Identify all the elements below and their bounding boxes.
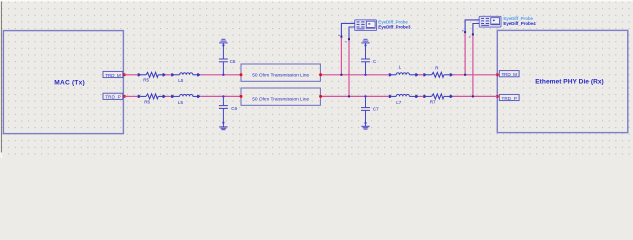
node probe U1 pin2 / bottom wire xyxy=(348,95,350,97)
wire probe U2 pin1 to top row xyxy=(465,20,479,75)
capacitor C7 xyxy=(361,96,370,126)
wire TRD_M net (top row) xyxy=(124,74,497,76)
svg-text:C7: C7 xyxy=(373,107,379,112)
capacitor C6 xyxy=(219,96,228,127)
wire probe U2 pin2 to bottom row xyxy=(473,24,479,97)
resistor R5 xyxy=(138,72,166,77)
pin TRD_M (MAC) xyxy=(103,71,126,77)
node C6/bottom wire xyxy=(222,95,224,97)
svg-text:R6: R6 xyxy=(144,99,150,104)
inductor L6 xyxy=(172,94,201,97)
svg-text:EyeDiff_Probe4: EyeDiff_Probe4 xyxy=(503,21,536,26)
wire probe U1 pin1 to top row xyxy=(341,23,354,74)
node C7/bottom wire xyxy=(364,95,366,97)
svg-text:L: L xyxy=(399,64,402,69)
node probe U1 pin1 / top wire xyxy=(340,74,342,76)
svg-text:L5: L5 xyxy=(178,78,184,83)
ground (below C7) xyxy=(361,126,369,129)
capacitor C xyxy=(361,59,370,75)
ground (above C) xyxy=(361,39,369,59)
block Ethernet PHY Die (Rx) xyxy=(497,30,628,132)
inductor L5 xyxy=(172,73,201,76)
svg-text:Ethemet PHY Die (Rx): Ethemet PHY Die (Rx) xyxy=(535,78,604,85)
svg-text:EyeDiff_Probe3: EyeDiff_Probe3 xyxy=(378,25,411,30)
transmission line TL1 xyxy=(240,64,323,81)
probe U1 EyeDiff_Probe3 icon xyxy=(352,20,377,31)
svg-text:L6: L6 xyxy=(178,100,184,105)
pin TRD_M (PHY) xyxy=(496,71,519,77)
svg-text:TRD_M: TRD_M xyxy=(501,72,517,77)
wire TRD_P net (bottom row) xyxy=(124,95,497,97)
capacitor C5 xyxy=(219,59,228,75)
inductor L xyxy=(389,73,418,76)
resistor R xyxy=(424,72,453,77)
svg-text:C5: C5 xyxy=(230,59,236,64)
probe U2 EyeDiff_Probe4 icon xyxy=(476,16,501,27)
pin TRD_P (MAC) xyxy=(103,93,126,99)
ground (below C6) xyxy=(219,127,227,130)
svg-text:L7: L7 xyxy=(396,100,402,105)
svg-text:50 Ohm Transmission Line: 50 Ohm Transmission Line xyxy=(252,72,309,78)
transmission line TL2 xyxy=(240,88,323,105)
inductor L7 xyxy=(389,94,418,97)
wire probe U1 pin2 to bottom row xyxy=(349,27,355,96)
pin TRD_P (PHY) xyxy=(496,94,519,100)
svg-text:50 Ohm Transmission Line: 50 Ohm Transmission Line xyxy=(252,96,309,102)
svg-text:MAC (Tx): MAC (Tx) xyxy=(54,79,85,86)
svg-text:TRD_P: TRD_P xyxy=(105,95,121,100)
svg-text:R5: R5 xyxy=(143,78,149,83)
block MAC (Tx) xyxy=(3,31,123,134)
node C5/top wire xyxy=(222,74,224,76)
node probe U2 pin2 / bottom wire xyxy=(472,95,474,97)
resistor R6 xyxy=(138,94,166,99)
ground (above C5) xyxy=(219,39,227,59)
resistor R7 xyxy=(424,94,453,99)
svg-text:TRD_P: TRD_P xyxy=(501,96,517,101)
svg-text:TRD_M: TRD_M xyxy=(105,73,121,78)
node probe U2 pin1 / top wire xyxy=(464,74,466,76)
svg-text:R7: R7 xyxy=(430,99,436,104)
svg-text:C6: C6 xyxy=(231,106,237,111)
background field xyxy=(0,0,633,158)
node C/top wire xyxy=(364,74,366,76)
